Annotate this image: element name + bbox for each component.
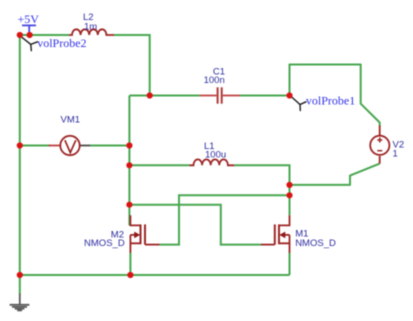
svg-text:volProbe1: volProbe1 <box>306 94 355 108</box>
wire bottom rail <box>20 274 290 276</box>
wire left vertical rail <box>19 35 21 275</box>
inductor L2 <box>69 29 114 35</box>
node M1 drain junction <box>286 192 292 198</box>
probe volProbe1 <box>291 96 307 111</box>
transistor M1 <box>261 215 290 253</box>
node volProbe1 junction <box>286 92 292 98</box>
node power symbol dot <box>27 32 33 38</box>
source V2 <box>379 126 381 136</box>
svg-text:NMOS_D: NMOS_D <box>295 238 336 249</box>
wire VM1 row <box>20 145 130 147</box>
svg-text:+5V: +5V <box>18 12 40 26</box>
wire C1 row left segment with corner down <box>129 96 199 226</box>
wire top rail from +5V node to L2 <box>20 34 69 36</box>
wire M1 source to bottom rail <box>289 253 291 276</box>
capacitor C1 <box>200 95 240 97</box>
wire L1 row <box>129 165 289 215</box>
transistor M2 <box>130 215 159 253</box>
node V2 return junction <box>286 182 292 188</box>
inductor L1 <box>190 159 235 165</box>
svg-text:volProbe2: volProbe2 <box>37 36 86 50</box>
wire M2 gate cross-couple to M1 drain node <box>160 195 290 244</box>
node ground junction <box>17 272 23 278</box>
svg-text:100u: 100u <box>205 150 226 161</box>
wire ground stub <box>19 275 21 294</box>
svg-text:1m: 1m <box>84 21 97 32</box>
wire M1 gate cross-couple to M2 drain node <box>129 205 261 245</box>
node M2 drain junction <box>126 202 132 208</box>
svg-text:1: 1 <box>393 148 398 159</box>
node L1 left junction <box>126 162 132 168</box>
wire volProbe1 node up over to V2 top <box>290 65 380 127</box>
node M2 source junction <box>127 272 133 278</box>
voltmeter VM1 <box>49 145 61 147</box>
probe volProbe2 <box>21 36 38 51</box>
node L2/C1 T junction <box>147 92 153 98</box>
wire M2 source to bottom rail <box>129 253 131 276</box>
node VM1 right junction <box>126 142 132 148</box>
wire L2 right to corner and down to C1 row <box>114 35 150 96</box>
node +5V junction dot <box>17 32 23 38</box>
power +5V symbol <box>22 25 36 34</box>
wire V2 bottom to M1 drain node <box>290 164 380 185</box>
svg-text:100n: 100n <box>204 75 225 86</box>
node VM1 left junction <box>17 142 23 148</box>
svg-text:VM1: VM1 <box>61 115 81 126</box>
ground <box>10 294 30 311</box>
wire C1 right to volProbe1 node <box>240 95 290 97</box>
svg-text:NMOS_D: NMOS_D <box>84 238 125 249</box>
